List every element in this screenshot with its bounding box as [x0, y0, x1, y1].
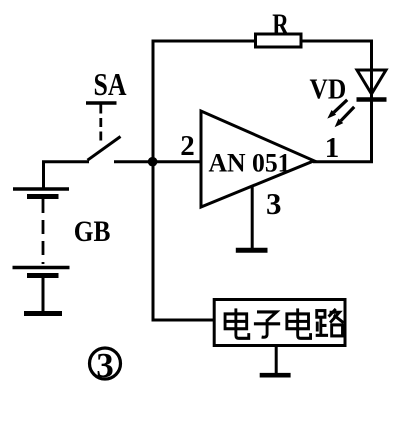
ground electronics box [260, 373, 291, 378]
svg-text:R: R [272, 7, 289, 42]
wire battery bottom stub [42, 278, 45, 311]
resistor R [256, 34, 302, 47]
svg-text:SA: SA [94, 66, 127, 102]
op-amp U1 AN051 triangle [201, 111, 314, 207]
wire pin3 [251, 186, 254, 248]
char zi [254, 312, 280, 337]
junction node [148, 157, 158, 167]
LED VD triangle [357, 70, 386, 94]
wire pin2 input [114, 160, 201, 163]
wire right vertical [370, 40, 373, 164]
figure number circled 3 [90, 348, 121, 379]
wire switch left with corner [44, 162, 90, 188]
wire left vertical [152, 40, 155, 321]
switch SA dashed link [99, 105, 102, 143]
svg-text:VD: VD [310, 73, 347, 105]
char dian 1 [225, 308, 249, 338]
battery dashed middle [42, 199, 45, 264]
box label 电子电路 drawn as strokes [225, 308, 343, 338]
switch SA actuator bar [86, 101, 117, 105]
wire top horizontal [152, 40, 374, 43]
wire box ground lead [275, 346, 278, 374]
battery GB cell1 long plate [13, 187, 69, 190]
svg-text:3: 3 [96, 346, 114, 385]
svg-text:AN 051: AN 051 [209, 149, 291, 178]
svg-text:GB: GB [74, 215, 111, 248]
electronics box [214, 300, 345, 346]
wire to electronics box [153, 319, 214, 321]
char lu [316, 309, 344, 336]
svg-text:1: 1 [325, 132, 340, 164]
switch SA blade [88, 137, 121, 161]
LED VD cathode bar [357, 97, 387, 102]
battery bottom terminal bar [24, 311, 62, 316]
LED light arrow 1 [327, 100, 347, 119]
LED light arrow 2 [335, 107, 355, 127]
battery GB cell1 short plate [27, 194, 59, 199]
wire pin1 to right vertical [313, 160, 373, 163]
svg-text:3: 3 [266, 186, 282, 221]
ground op-amp [236, 248, 268, 253]
battery GB cell2 short plate [27, 273, 59, 278]
svg-text:2: 2 [180, 130, 195, 162]
battery GB cell2 long plate [13, 266, 70, 269]
char dian 2 [287, 308, 311, 338]
